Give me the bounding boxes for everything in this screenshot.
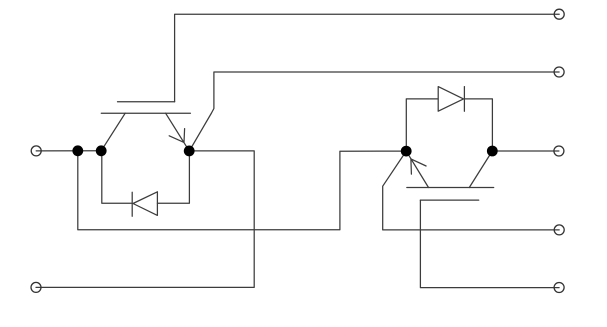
terminal 5	[554, 146, 564, 156]
node D junction dot	[401, 146, 412, 157]
terminal 1	[31, 146, 41, 156]
node E junction dot	[487, 146, 498, 157]
wire node B to terminal 2	[36, 151, 254, 288]
transistor Q2 body bar	[407, 187, 494, 189]
node A junction dot	[72, 145, 83, 156]
wire gate lead of Q2 to terminal 7	[420, 200, 559, 288]
wire node D to terminal 6	[383, 151, 560, 230]
terminal 7	[554, 283, 564, 293]
node B junction dot	[184, 146, 195, 157]
transistor Q2 collector leg	[469, 151, 492, 188]
diode D1 triangle	[133, 192, 157, 216]
terminal 6	[554, 225, 564, 235]
transistor Q1 body bar	[101, 112, 190, 114]
terminal 4	[554, 67, 564, 77]
transistor Q2 gate bar	[420, 199, 478, 201]
diode D2 triangle	[438, 87, 463, 112]
wire node D to diode D2 anode	[406, 99, 438, 151]
wire auxiliary emitter of Q1 to terminal 4	[189, 72, 559, 151]
transistor Q2 emitter leg	[406, 151, 428, 187]
transistor Q2 emitter arrowhead	[411, 159, 426, 174]
terminal 2	[31, 282, 41, 292]
diode D1 cathode bar	[131, 192, 133, 216]
transistor Q1 emitter leg	[166, 113, 190, 151]
wire node A to node B link	[78, 151, 406, 230]
wire diode D1 anode to node B	[157, 151, 189, 203]
transistor Q1 collector leg	[101, 113, 125, 151]
transistor Q1 emitter arrowhead	[169, 129, 184, 143]
node C junction dot	[96, 145, 107, 156]
wire diode D2 cathode to node E	[464, 99, 492, 151]
transistor Q1 gate bar	[118, 101, 175, 103]
diode D2 cathode bar	[463, 87, 465, 112]
terminal 3	[554, 9, 564, 19]
wire gate lead of Q1 from terminal 3	[175, 14, 560, 102]
wire collector rail from terminal 1	[36, 150, 101, 152]
wire node E to terminal 5	[492, 150, 559, 152]
wire node C to diode D1 cathode	[102, 151, 132, 204]
